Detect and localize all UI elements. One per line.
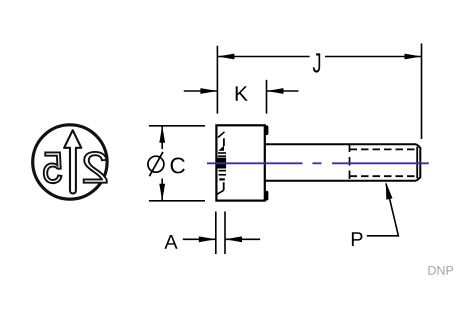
J arrow left [217, 54, 234, 60]
logo up arrow [64, 130, 81, 193]
J extension line right [421, 43, 423, 139]
A arrow line right [225, 238, 260, 240]
A arrow line left [183, 238, 216, 240]
C extension line top [149, 125, 205, 127]
diameter symbol [148, 156, 164, 172]
shank bottom line [266, 180, 417, 182]
thread start hidden line [349, 144, 351, 185]
A extension line right [224, 212, 226, 255]
K arrow left [200, 88, 217, 94]
head chamfer bottom-left [217, 190, 224, 194]
logo outer circle [33, 125, 107, 199]
C arrow line top [161, 126, 163, 149]
screw end chamfer outline [416, 144, 420, 181]
K arrow line left [184, 90, 218, 92]
A arrow right [225, 236, 242, 242]
J dimension line right part [325, 56, 422, 58]
A extension line left [215, 212, 217, 255]
head chamfer top-left [218, 132, 225, 138]
K label [236, 86, 248, 100]
P leader arrow [386, 182, 393, 200]
centerline blue [207, 162, 429, 164]
J dimension line left part [217, 56, 309, 58]
thread minor dia bottom hidden line [350, 175, 415, 177]
K arrow line right [267, 90, 299, 92]
head fillet mark top [265, 127, 269, 133]
J extension line left [216, 46, 218, 114]
head stamp marks [218, 146, 227, 181]
P leader line [367, 184, 399, 236]
J arrow right [405, 54, 422, 60]
C arrow bottom [159, 184, 165, 201]
screw head outline [216, 125, 264, 200]
head fillet mark bottom [265, 193, 269, 199]
C arrow line bottom [161, 179, 163, 201]
J label [313, 53, 320, 72]
screw end inner edge [416, 147, 418, 178]
K extension line right [266, 80, 268, 114]
logo digit 2 (mirrored) [84, 152, 107, 183]
C label [171, 157, 185, 173]
C extension line bottom [149, 200, 205, 202]
A arrow left [199, 236, 216, 242]
P label [352, 232, 363, 246]
thread minor dia top hidden line [350, 148, 415, 150]
logo digit 5 (mirrored) [44, 152, 62, 183]
head chamfer edge bottom [223, 182, 225, 190]
logo mirrored group [44, 130, 107, 193]
DNP watermark [428, 266, 453, 275]
K arrow right [267, 88, 284, 94]
shank top line [266, 143, 417, 145]
A label [164, 235, 177, 249]
head chamfer edge top [223, 138, 225, 146]
C arrow top [159, 126, 165, 143]
